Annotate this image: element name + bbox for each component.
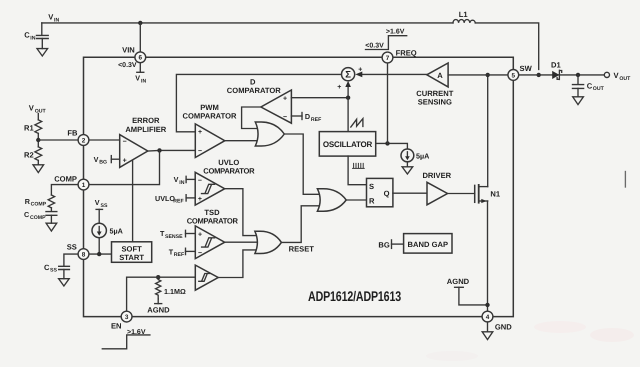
node AGND (1.1M resistor) [147, 299, 170, 315]
svg-text:SENSE: SENSE [165, 234, 183, 240]
node VIN (UVLO input) [174, 175, 196, 186]
svg-text:+: + [123, 157, 127, 164]
svg-text:<0.3V: <0.3V [365, 42, 384, 49]
annotation FREQ thresholds (step) [365, 29, 406, 50]
junction EN / 1.1M [156, 275, 160, 279]
svg-text:IN: IN [179, 180, 184, 186]
wire latch Q to driver [393, 192, 427, 194]
resistor RCOMP [25, 195, 55, 208]
terminal VOUT [604, 71, 631, 82]
wire PWM output to OR1 [225, 140, 262, 142]
wire OR3 output to latch R [346, 199, 366, 201]
svg-text:COMP: COMP [31, 202, 47, 208]
wire oscillator ramp up [347, 98, 349, 132]
svg-text:SENSING: SENSING [418, 98, 452, 107]
wire oscillator clock to latch S [348, 156, 366, 185]
pin 2 FB [67, 128, 89, 145]
svg-text:S: S [369, 182, 374, 191]
ground (GND pin) [482, 322, 493, 340]
junction FB tap [36, 138, 40, 142]
wire current sense to sigma (arrow) [355, 72, 427, 78]
svg-text:−: − [283, 114, 287, 121]
sawtooth symbol [351, 119, 363, 127]
node AGND (right) [447, 277, 488, 305]
wire TSD output to OR2 middle input [225, 241, 259, 243]
svg-text:IN: IN [30, 35, 35, 41]
sigma summer [337, 66, 362, 91]
ground (CIN) [37, 49, 48, 56]
svg-text:RESET: RESET [289, 245, 315, 254]
pin 1 COMP [78, 179, 89, 190]
svg-text:AGND: AGND [447, 277, 470, 286]
svg-text:8: 8 [82, 252, 86, 259]
pin 5 SW [508, 64, 533, 80]
label ADP1612/ADP1613 [308, 288, 401, 304]
junction VIN rail to VIN pin [138, 21, 142, 25]
ground (R2) [33, 165, 44, 173]
svg-text:DRIVER: DRIVER [422, 171, 451, 180]
gate OR2 (RESET) [255, 231, 282, 253]
comparator PWM [183, 103, 238, 157]
comparator D (points left) [227, 77, 292, 123]
ground (5uA FREQ) [402, 167, 413, 174]
wire D comparator output to OR1 [242, 107, 262, 129]
svg-text:FB: FB [67, 128, 78, 137]
svg-text:R1: R1 [24, 124, 34, 133]
ground (COUT) [573, 97, 584, 105]
svg-text:−: − [123, 138, 127, 145]
resistor R2 [24, 147, 42, 161]
smudge artifacts [426, 321, 634, 361]
svg-text:6: 6 [139, 55, 143, 62]
svg-text:A: A [437, 71, 443, 80]
node VSS label [95, 198, 108, 209]
svg-text:R2: R2 [24, 150, 34, 159]
IC outline ADP1612/ADP1613 [84, 57, 514, 316]
svg-text:5µA: 5µA [110, 226, 123, 235]
wire FB pin to error amp - input [89, 139, 120, 141]
wire oscillator to sigma (arrow up) [345, 81, 351, 98]
node TREF [169, 247, 196, 258]
svg-text:SS: SS [101, 203, 108, 209]
svg-text:N1: N1 [490, 189, 500, 198]
junction AGND / N1 source [485, 303, 489, 307]
svg-text:ERROR: ERROR [132, 116, 160, 125]
svg-text:+: + [198, 231, 202, 238]
junction COUT tap [576, 73, 580, 77]
node DREF [291, 112, 321, 123]
node Vin label [48, 13, 59, 24]
svg-text:AGND: AGND [147, 306, 170, 315]
annotation VIN threshold [118, 62, 146, 84]
svg-text:BG: BG [378, 241, 389, 250]
svg-text:V: V [94, 155, 99, 164]
wire R1 to junction [37, 133, 39, 146]
svg-text:OUT: OUT [35, 108, 47, 114]
gate OR3 (to latch R) [317, 189, 346, 211]
svg-text:OUT: OUT [593, 86, 605, 92]
svg-text:C: C [24, 210, 29, 219]
wire FREQ pin down [387, 63, 389, 143]
junction SS / VSS source [97, 252, 101, 256]
amplifier current sensing [416, 63, 453, 107]
diode D1 (schottky) [551, 61, 562, 80]
svg-text:OSCILLATOR: OSCILLATOR [323, 140, 373, 149]
svg-text:−: − [198, 178, 202, 185]
wire COMP pin to RCOMP [51, 185, 78, 195]
current source 5uA (soft start) [92, 209, 123, 254]
wire N1 source down to GND [487, 201, 489, 311]
latch SR [367, 178, 393, 206]
svg-text:V: V [174, 175, 179, 184]
resistor 1.1M [156, 277, 186, 299]
svg-text:3: 3 [125, 314, 129, 321]
junction N1 drain / SW wire [486, 73, 490, 77]
svg-text:C: C [24, 31, 30, 40]
svg-text:COMPARATOR: COMPARATOR [183, 112, 238, 121]
pin 6 VIN [122, 46, 146, 63]
wire driver to N1 gate [448, 193, 475, 195]
svg-text:COMPARATOR: COMPARATOR [227, 86, 282, 95]
ground (CSS) [59, 279, 70, 286]
svg-text:<0.3V: <0.3V [118, 62, 137, 69]
stray mark right edge [624, 172, 626, 188]
capacitor CSS [44, 263, 69, 279]
svg-text:+: + [337, 84, 341, 91]
svg-text:+: + [198, 129, 202, 136]
svg-text:D1: D1 [551, 61, 561, 70]
wire VOUT to R1 [37, 114, 39, 120]
wire Vin rail (top) [42, 23, 539, 70]
block OSCILLATOR [319, 132, 375, 157]
wire EN pin to EN comparator [127, 277, 196, 311]
capacitor COUT [573, 75, 605, 97]
op-amp error amplifier [120, 116, 167, 167]
wire current sense to SW pin [448, 74, 508, 76]
wire SW to D1 to VOUT [519, 74, 605, 76]
svg-text:V: V [95, 198, 100, 207]
svg-text:COMP: COMP [54, 174, 77, 183]
svg-text:SS: SS [50, 268, 57, 274]
node BG [378, 240, 403, 250]
node VBG [94, 155, 120, 166]
svg-text:+: + [198, 196, 202, 203]
inductor L1 [453, 10, 475, 23]
junction D comp / oscillator ramp [346, 96, 350, 100]
annotation EN threshold (step) [102, 329, 150, 349]
wire SS pin to soft start [78, 253, 111, 255]
pin 8 SS [78, 249, 89, 260]
junction L1 branch to SW wire [537, 73, 541, 77]
wire VIN pin drop [139, 23, 141, 52]
transistor N1 [475, 185, 501, 203]
svg-text:BAND GAP: BAND GAP [408, 240, 449, 249]
svg-text:OUT: OUT [619, 76, 631, 82]
comparator UVLO [195, 158, 255, 205]
svg-text:1.1MΩ: 1.1MΩ [164, 287, 186, 296]
wire EN comparator output to OR2 bottom input [218, 250, 260, 278]
wire sigma output to PWM + input [176, 74, 341, 131]
wire error amp output to COMP pin [89, 150, 160, 184]
svg-text:>1.6V: >1.6V [386, 29, 405, 36]
svg-text:VIN: VIN [122, 46, 135, 55]
svg-text:REF: REF [174, 252, 184, 258]
svg-text:COMPARATOR: COMPARATOR [187, 216, 239, 225]
pin 4 GND [482, 311, 512, 332]
buffer DRIVER [422, 171, 451, 205]
svg-text:7: 7 [386, 55, 390, 62]
wire OR1 output to OR3 top input [284, 134, 324, 194]
wire SS pin to CSS [64, 254, 78, 266]
wire UVLO output to OR2 top input [225, 189, 261, 236]
svg-text:2: 2 [82, 137, 86, 144]
svg-text:Σ: Σ [345, 70, 351, 81]
svg-text:L1: L1 [459, 10, 469, 19]
wire error amp output to PWM - input [148, 149, 196, 152]
svg-text:4: 4 [486, 314, 490, 321]
svg-text:FREQ: FREQ [396, 48, 417, 57]
svg-text:−: − [198, 250, 202, 257]
comparator TSD [187, 208, 239, 259]
capacitor CIN [24, 23, 48, 49]
svg-text:−: − [198, 148, 202, 155]
svg-text:V: V [135, 74, 140, 83]
svg-text:5: 5 [512, 72, 516, 79]
comparator EN (hysteresis) [195, 265, 218, 290]
block BAND GAP [404, 234, 452, 254]
svg-text:IN: IN [54, 17, 59, 23]
ground (CCOMP) [46, 223, 57, 231]
wire soft start to error amplifier [132, 160, 134, 242]
svg-text:5µA: 5µA [416, 151, 429, 160]
junction error amp output [157, 148, 161, 152]
svg-text:REF: REF [311, 117, 321, 123]
gate OR1 (PWM/D) [255, 122, 284, 146]
wire OR2 output to OR3 bottom input [281, 206, 324, 243]
svg-text:1: 1 [82, 182, 86, 189]
clock ticks symbol [353, 163, 365, 168]
wire D comparator + input to oscillator node [291, 97, 348, 99]
node TSENSE [160, 229, 195, 240]
svg-text:D: D [305, 112, 310, 121]
svg-text:SS: SS [67, 243, 77, 252]
wire oscillator to FREQ / 5uA [376, 143, 408, 149]
resistor R1 [24, 120, 42, 134]
junction FREQ line [385, 141, 389, 145]
svg-text:+: + [283, 95, 287, 102]
svg-text:REF: REF [173, 199, 183, 205]
svg-text:D: D [250, 77, 256, 86]
svg-text:CURRENT: CURRENT [416, 89, 453, 98]
svg-text:COMPARATOR: COMPARATOR [203, 167, 255, 176]
svg-text:R: R [369, 197, 375, 206]
svg-text:AMPLIFIER: AMPLIFIER [125, 125, 166, 134]
svg-text:COMP: COMP [30, 215, 46, 221]
node UVLOREF [155, 194, 195, 205]
pin 7 FREQ [382, 48, 417, 62]
capacitor CCOMP [24, 208, 57, 223]
wire R2 to ground [37, 160, 39, 164]
current source 5uA (FREQ) [401, 149, 429, 167]
block SOFT START [112, 242, 152, 262]
wire N1 drain up to SW node [487, 75, 489, 187]
wire FB tap to FB pin [38, 139, 78, 141]
svg-text:ADP1612/ADP1613: ADP1612/ADP1613 [308, 288, 401, 304]
node VOUT (feedback divider) [29, 104, 47, 115]
svg-text:Q: Q [384, 189, 390, 198]
pin 3 EN [111, 311, 132, 330]
svg-text:START: START [119, 253, 144, 262]
svg-text:SW: SW [520, 64, 533, 73]
svg-text:BG: BG [99, 160, 107, 166]
svg-text:IN: IN [141, 78, 146, 84]
svg-text:EN: EN [111, 321, 122, 330]
svg-text:GND: GND [495, 323, 512, 332]
